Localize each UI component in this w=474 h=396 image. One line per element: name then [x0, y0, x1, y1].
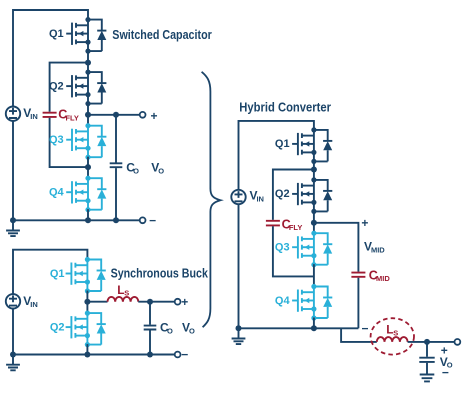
svg-text:O: O	[167, 327, 173, 336]
wire: Q3 source to Q4 drain (C3)	[313, 264, 315, 286]
wire: C1 bottom rail to - terminal	[13, 219, 139, 221]
svg-text:MID: MID	[376, 274, 390, 283]
node: mid node V_MID (C3)	[311, 220, 317, 226]
node: C_FLY top branch (C3)	[311, 167, 317, 173]
svg-text:FLY: FLY	[65, 113, 78, 122]
wire: C2 top rail	[13, 250, 87, 355]
wire: output branch down-step (C3)	[341, 328, 377, 342]
svg-text:Q3: Q3	[49, 134, 64, 146]
wire: Q4 source to bottom rail	[87, 209, 89, 220]
svg-text:FLY: FLY	[289, 223, 302, 232]
terminal open circle (C3 output)	[455, 339, 461, 345]
capacitor C_O (C2)	[144, 326, 157, 330]
transistor Q2 (C3)	[275, 177, 332, 214]
wire: Q2 source to Q3 drain (C3 mid node)	[313, 211, 315, 233]
terminal - (C1)	[140, 217, 146, 223]
svg-text:S: S	[393, 328, 398, 337]
voltage source V_IN (buck)	[6, 294, 20, 308]
node: V_O cap junction (C3)	[424, 339, 430, 345]
wire: C3 top rail	[239, 121, 314, 328]
wire: branch to C_FLY (C3)	[273, 170, 314, 220]
node: C_O top (C2)	[147, 299, 153, 305]
wire: output node to + terminal	[88, 114, 139, 116]
inductor L_S (C2)	[108, 297, 139, 302]
svg-text:Q2: Q2	[50, 321, 65, 333]
svg-text:−: −	[149, 213, 156, 227]
svg-text:O: O	[158, 166, 164, 175]
terminal + (C2)	[175, 299, 181, 305]
node: C_O bottom junction	[113, 217, 119, 223]
svg-text:IN: IN	[30, 300, 38, 309]
svg-text:IN: IN	[30, 112, 38, 121]
svg-text:S: S	[124, 289, 129, 298]
transistor Q2 (C1)	[49, 70, 106, 107]
wire: Q1 source to Q2 drain (C3)	[313, 161, 315, 180]
transistor Q3 (C1, cyan)	[49, 123, 106, 160]
svg-text:Q1: Q1	[275, 138, 290, 150]
svg-text:−: −	[362, 322, 369, 336]
wire: C_O top branch (C2)	[149, 302, 151, 325]
highlight: dashed ellipse around L_S	[371, 318, 414, 354]
node: C_FLY bottom junction (Q3/Q4)	[87, 157, 89, 179]
capacitor C_FLY (C3)	[266, 221, 280, 226]
ground (C3)	[236, 325, 242, 331]
node: SW node (C2)	[84, 299, 90, 305]
wire: to output cap (C3)	[426, 342, 428, 357]
wire: C_FLY bottom to Q3/Q4 node (C3)	[273, 226, 314, 276]
capacitor V_O output (C3)	[419, 358, 434, 362]
node: C_O bottom (C2)	[147, 352, 153, 358]
svg-text:−: −	[181, 347, 188, 361]
terminal + (C1)	[140, 112, 146, 118]
transistor Q4 (C1, cyan)	[49, 176, 106, 213]
node: C_FLY top branch junction	[85, 60, 91, 66]
wire: C_O bottom to rail	[115, 168, 117, 220]
wire: C_MID bottom to rail	[357, 278, 359, 329]
svg-text:Hybrid Converter: Hybrid Converter	[239, 101, 331, 115]
node: C1 output + node	[85, 112, 91, 118]
voltage source V_IN (switched capacitor)	[6, 107, 20, 121]
wire: inductor to V_O terminal (C3)	[408, 341, 455, 343]
node: C_O top junction	[113, 112, 119, 118]
wire: C_O bottom (C2)	[149, 330, 151, 354]
wire: Q4 source to bottom rail (C3)	[313, 318, 315, 329]
terminal - (C2)	[175, 352, 181, 358]
wire: C3 bottom rail	[239, 327, 359, 329]
wire: branch to C_FLY top plate	[50, 63, 88, 112]
transistor Q4 (C3, cyan)	[275, 284, 332, 321]
node: Q2 source on rail (C2)	[84, 352, 90, 358]
svg-text:Synchronous Buck: Synchronous Buck	[111, 266, 208, 280]
svg-text:Q4: Q4	[49, 187, 65, 199]
ground (C2)	[10, 352, 16, 358]
brace: curly bracket pointing at hybrid converter	[202, 72, 221, 327]
wire: C2 bottom rail	[13, 354, 174, 356]
wire: to C_O top	[115, 115, 117, 163]
voltage source V_IN (hybrid)	[231, 190, 245, 204]
capacitor C_MID	[351, 273, 365, 277]
svg-text:Q2: Q2	[275, 188, 290, 200]
wire: Q1 source to Q2 drain (SW node)	[86, 291, 88, 314]
wire: Q2 source to Q3 drain (output node)	[87, 103, 89, 126]
svg-text:+: +	[361, 216, 368, 230]
wire: mid node to C_MID top (C3)	[314, 223, 359, 272]
svg-text:IN: IN	[256, 194, 264, 203]
capacitor C_FLY (C1)	[43, 113, 57, 117]
ground (C1)	[10, 217, 16, 223]
wire: Q2 source to bottom rail (C2)	[86, 344, 88, 354]
transistor Q1 (C1, nmos with body diode)	[49, 17, 106, 54]
svg-text:−: −	[442, 365, 449, 379]
capacitor C_O (C1)	[110, 163, 123, 167]
svg-text:Switched Capacitor: Switched Capacitor	[112, 28, 212, 42]
svg-text:O: O	[133, 166, 139, 175]
transistor Q1 (C3)	[275, 127, 332, 164]
svg-text:O: O	[189, 327, 195, 336]
svg-text:+: +	[181, 295, 188, 309]
svg-text:Q1: Q1	[50, 268, 65, 280]
transistor Q3 (C3, cyan)	[275, 231, 332, 268]
wire: C_FLY bottom plate to Q3/Q4 node	[50, 118, 88, 167]
wire: Q1 source to Q2 drain	[87, 51, 89, 73]
node: Q4 source on bottom rail	[85, 217, 91, 223]
svg-text:Q2: Q2	[49, 80, 64, 92]
wire: SW to inductor	[87, 301, 107, 303]
inductor L_S (C3)	[377, 337, 408, 342]
transistor Q2 (C2, cyan)	[50, 311, 106, 348]
svg-text:Q3: Q3	[275, 242, 290, 254]
transistor Q1 (C2, cyan)	[50, 257, 106, 294]
wire: C1 top rail V_IN+ to Q1 drain	[13, 10, 88, 220]
svg-text:MID: MID	[371, 245, 385, 254]
node: Q4 source on rail (C3)	[311, 325, 317, 331]
svg-text:+: +	[151, 109, 158, 123]
ground (C3 output)	[420, 363, 435, 382]
svg-text:Q4: Q4	[275, 295, 291, 307]
svg-text:Q1: Q1	[49, 28, 64, 40]
wire: inductor to + terminal	[138, 301, 174, 303]
